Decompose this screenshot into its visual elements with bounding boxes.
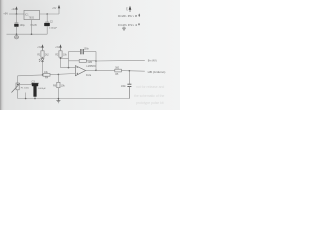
node output junction [46,13,48,15]
resistor R1 [37,50,49,57]
node D1 junction [42,74,44,76]
supply arrow IC2 pin8 [129,6,132,12]
resistor R6 to ground [53,74,65,98]
wire ground bus [7,33,48,35]
capacitor C5 [121,71,132,99]
supply arrow +5V [58,5,60,9]
wire feedback bottom rail [69,60,80,62]
node regulator bus junction [31,33,33,35]
svg-text:IC2b Pin 4: IC2b Pin 4 [118,23,138,27]
svg-text:1M0: 1M0 [87,61,92,64]
wire up to +5V arrow [58,9,60,14]
svg-text:not for release and: not for release and [136,85,164,89]
LED D1 [39,57,44,62]
supply arrow branch 1 [41,44,43,50]
node R6 tap [58,74,60,76]
wire opamp output [86,69,96,71]
svg-text:IC2a: IC2a [86,74,92,77]
node P1 top junction [17,84,18,85]
node C3 rail junction [34,98,36,100]
node A [60,58,62,60]
wire to HB [121,70,144,73]
svg-text:100µ: 100µ [20,25,26,27]
svg-text:IC2b Pin 8: IC2b Pin 8 [118,14,138,18]
svg-text:7805: 7805 [29,17,35,20]
supply arrow branch 2 [59,44,61,50]
node input junction [16,13,18,15]
wire R2 down to input [60,57,62,67]
resistor R5 output [115,69,122,72]
svg-text:the schematic of the: the schematic of the [134,94,164,98]
capacitor C1 [14,14,25,34]
svg-text:+5V: +5V [55,47,60,49]
svg-text:LM358N: LM358N [86,65,95,68]
capacitor C2 [44,14,57,34]
supply arrow top-left [15,6,17,14]
op-amp U1 triangle [75,66,85,76]
node HB junction [129,70,131,72]
paper background [0,0,180,110]
wire output run [96,69,115,71]
wire node A to feedback [61,57,69,59]
wire feedback top rail [69,51,81,53]
svg-text:+5V: +5V [37,47,42,49]
ground symbol IC2 pin4 [122,27,126,31]
ground symbol under bus [15,34,19,39]
resistor R2 [55,50,67,57]
capacitor C3 [18,80,47,98]
wire B+ out [96,59,145,62]
resistor R3 feedback [79,60,86,63]
wire opamp plus input [61,67,76,69]
node R6 rail junction [58,98,60,100]
svg-text:HB (Arduino): HB (Arduino) [148,70,166,74]
wire bottom ground rail [18,87,130,99]
svg-text:+9V: +9V [3,12,8,16]
ground symbol main [56,99,60,103]
svg-text:+9V: +9V [11,9,16,11]
wire lower input [18,74,43,77]
wire input +9V feed [9,13,24,15]
svg-text:1.000µF: 1.000µF [38,88,47,90]
node output feedback junction [95,70,97,72]
node feedback tap [68,67,70,69]
wire LED to lower rail [42,63,44,75]
wire regulator output [40,13,60,15]
svg-text:P1 100k: P1 100k [21,88,30,90]
regulator IC1 box [24,10,40,19]
wire down-left corner [17,76,19,83]
wire feedback left vertical [68,52,70,68]
svg-text:100n: 100n [121,86,127,88]
resistor R4 series [43,74,50,77]
wire regulator ground pin [31,20,33,35]
svg-text:+5V: +5V [52,8,57,10]
svg-text:100n: 100n [84,47,90,50]
svg-text:B+ (4V): B+ (4V) [148,59,157,63]
svg-text:+5V: +5V [126,7,128,11]
capacitor C4 [81,49,83,54]
faint watermark text bottom right [134,85,164,105]
node C1 bus junction [16,33,18,35]
svg-text:1.000µF: 1.000µF [49,28,58,30]
wire feedback right vertical [95,52,97,71]
node B+ tap [95,60,97,62]
potentiometer P1 [12,83,30,99]
svg-text:prototype pulse kit: prototype pulse kit [136,101,164,105]
